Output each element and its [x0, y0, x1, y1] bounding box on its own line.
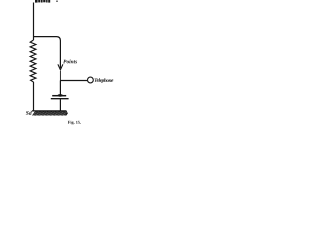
ink speck right of aerial label — [56, 1, 58, 2]
arrow head of points contact — [58, 64, 63, 70]
capacitor top plate — [52, 95, 66, 97]
capacitor bottom plate — [51, 98, 69, 100]
wire top branch to points (horizontal with rounded corner) — [34, 37, 61, 69]
earth (hatched ground band) — [32, 111, 68, 116]
telephone receiver (circle) — [88, 77, 94, 83]
wire left earth lead (below resistor) — [33, 82, 35, 111]
svg-text:Telephone: Telephone — [94, 78, 114, 84]
wire condenser to earth — [59, 99, 61, 111]
svg-text:Sd: Sd — [26, 111, 32, 117]
wire to telephone (horizontal) — [60, 80, 87, 82]
wire contact stem below arrow — [59, 71, 61, 81]
capacitor junction blob — [58, 94, 63, 97]
svg-text:Points: Points — [63, 59, 77, 65]
label Aerial (cut off at top edge) — [35, 0, 50, 3]
svg-text:Fig. 15.: Fig. 15. — [68, 120, 81, 125]
resistor (aerial tuning zigzag) — [30, 40, 36, 82]
wire aerial lead-in (vertical, top) — [33, 3, 35, 41]
wire down to condenser — [59, 81, 61, 96]
